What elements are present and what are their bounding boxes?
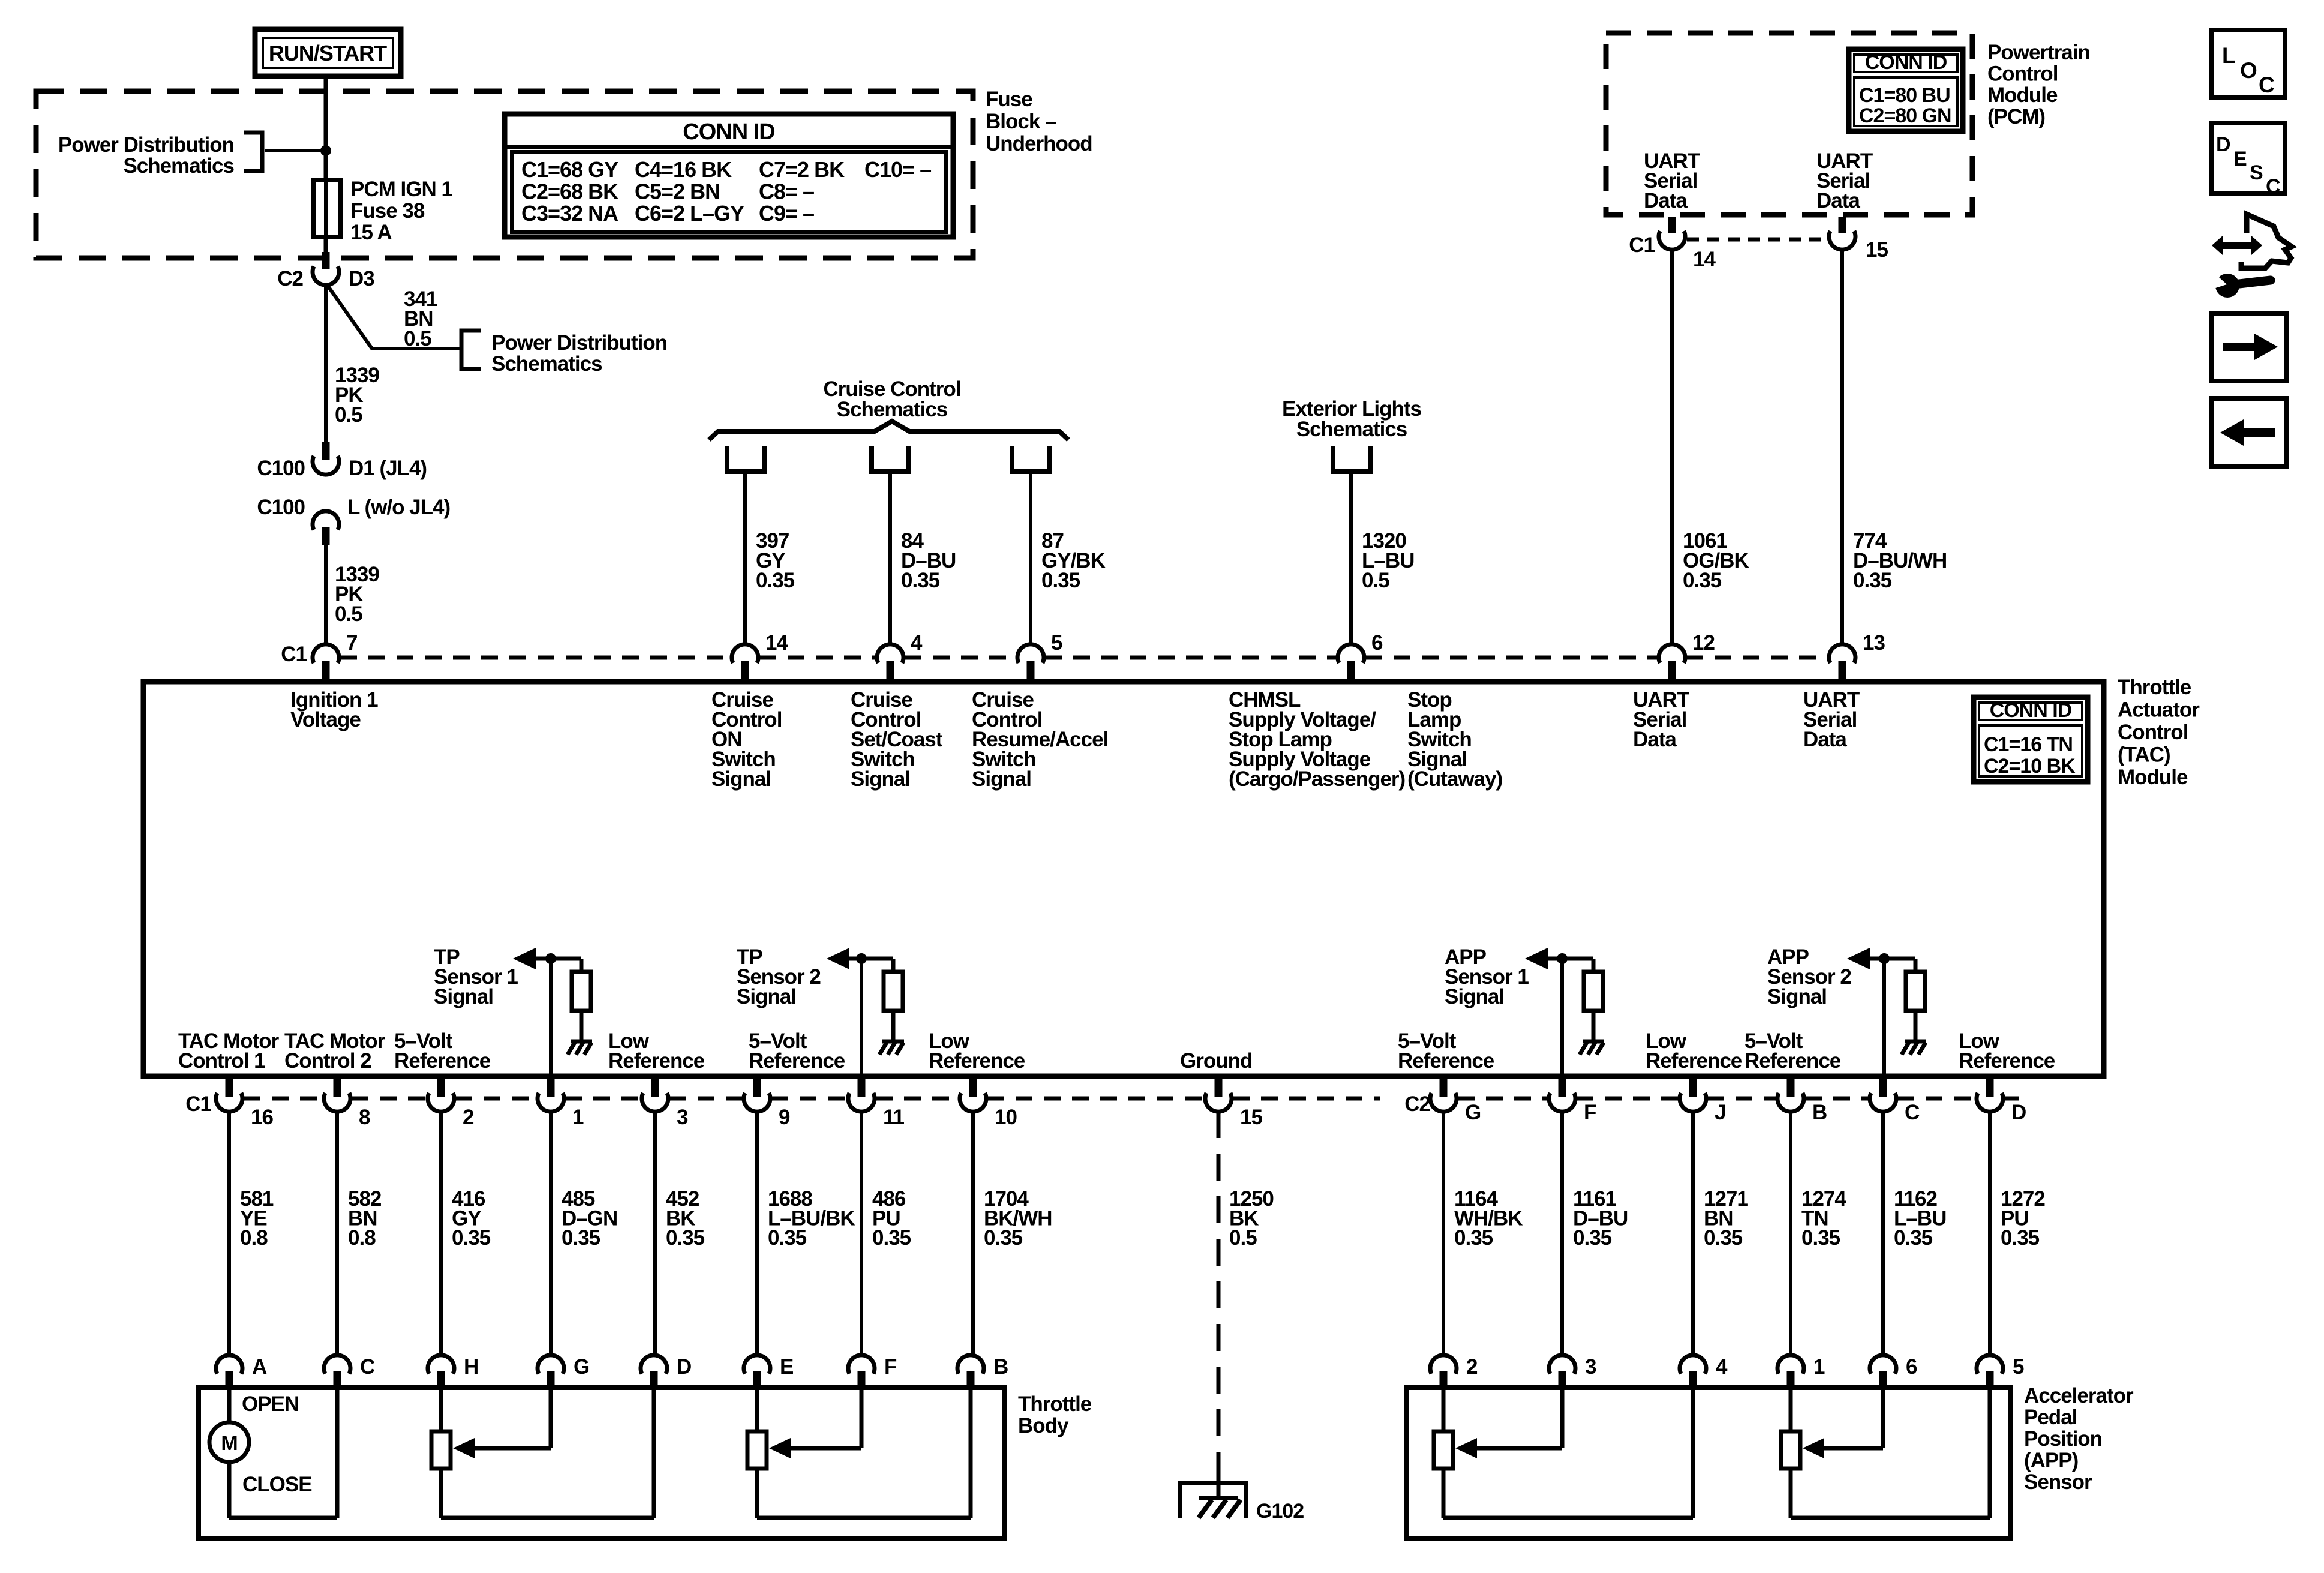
svg-text:(APP): (APP) <box>2024 1449 2078 1472</box>
label UART Serial Data (TAC right) <box>1803 688 1860 751</box>
arrow APP sensor 2 signal <box>1847 948 1870 969</box>
svg-text:Control: Control <box>1987 62 2058 86</box>
pin G (TAC C2 bottom) <box>1430 1079 1481 1124</box>
svg-text:0.35: 0.35 <box>2001 1226 2040 1250</box>
wire 1688 L–BU/BK <box>755 1111 759 1357</box>
label wire 1320 L-BU 0.5 <box>1362 529 1414 592</box>
connector C100 pin D1 (JL4) <box>257 442 427 480</box>
ground TP sensor 1 signal <box>568 1041 592 1055</box>
label Low Reference (pin 3) <box>608 1029 705 1073</box>
svg-text:CLOSE: CLOSE <box>242 1473 312 1496</box>
wire APP sensor 1 signal resistor to ground <box>1592 1011 1596 1040</box>
label Throttle Actuator Control (TAC) Module <box>2118 676 2200 789</box>
pin E (throttle body connector) <box>744 1355 793 1389</box>
wire APP sensor 2 signal arrow line <box>1869 959 1915 972</box>
svg-text:Pedal: Pedal <box>2024 1406 2077 1429</box>
svg-text:Accelerator: Accelerator <box>2024 1384 2134 1407</box>
svg-text:Data: Data <box>1633 728 1677 751</box>
label Low Reference (pin J) <box>1646 1029 1742 1073</box>
svg-text:0.35: 0.35 <box>1801 1226 1840 1250</box>
connector C100 pin L (w/o JL4) <box>257 496 450 545</box>
svg-text:Signal: Signal <box>1767 985 1827 1008</box>
svg-text:15: 15 <box>1866 238 1888 262</box>
svg-text:A: A <box>252 1355 267 1379</box>
off-page bracket exterior lights <box>1333 446 1370 472</box>
svg-text:F: F <box>884 1355 897 1379</box>
svg-text:Schematics: Schematics <box>1296 418 1407 441</box>
svg-text:Reference: Reference <box>749 1049 845 1073</box>
wire fuse to connector C2 <box>324 237 328 254</box>
wire cruise Set/Coast to pin 4 (84 D-BU) <box>888 472 892 646</box>
svg-text:Control 2: Control 2 <box>284 1049 371 1073</box>
label wire 1161 D–BU 0.35 <box>1573 1187 1628 1250</box>
svg-text:H: H <box>464 1355 478 1379</box>
node junction dot <box>320 145 331 156</box>
svg-text:Signal: Signal <box>737 985 796 1008</box>
svg-text:Schematics: Schematics <box>837 398 948 421</box>
label APP sensor 1 signal text <box>1445 945 1529 1008</box>
svg-text:Fuse 38: Fuse 38 <box>350 199 425 223</box>
wire 452 BK <box>653 1111 657 1357</box>
wiper arrow APP sensor 2 <box>1803 1387 1883 1458</box>
wire C2-D3 to C100 (1339 PK) <box>324 284 328 444</box>
wire 1272 PU <box>1988 1111 1992 1357</box>
svg-text:CONN ID: CONN ID <box>683 119 774 145</box>
svg-text:6: 6 <box>1371 631 1383 655</box>
pin D (throttle body connector) <box>641 1355 691 1389</box>
pin 6 (TAC C1 top) <box>1338 631 1383 681</box>
svg-text:Powertrain: Powertrain <box>1987 41 2090 64</box>
connector C2 pin D3 <box>277 252 374 290</box>
svg-text:C5=2 BN: C5=2 BN <box>635 179 720 204</box>
pin F (throttle body connector) <box>848 1355 897 1389</box>
svg-text:Body: Body <box>1018 1414 1069 1437</box>
label wire 452 BK 0.35 <box>666 1187 705 1250</box>
svg-text:Reference: Reference <box>608 1049 705 1073</box>
svg-text:6: 6 <box>1906 1355 1917 1379</box>
label wire 581 YE 0.8 <box>240 1187 274 1250</box>
wire PCM 14 to TAC 12 (1061 OG/BK) <box>1670 249 1674 646</box>
motor M throttle <box>209 1422 249 1462</box>
svg-text:C1: C1 <box>185 1092 211 1116</box>
fuse PCM IGN 1 Fuse 38 15A <box>313 180 341 237</box>
svg-text:Sensor: Sensor <box>2024 1470 2092 1494</box>
svg-text:0.35: 0.35 <box>1704 1226 1743 1250</box>
off-page bracket Power Distribution Schematics (341 BN) <box>461 331 667 376</box>
label wire 416 GY 0.35 <box>452 1187 491 1250</box>
svg-text:C1=68 GY: C1=68 GY <box>521 157 618 182</box>
wire TP sensor 1 signal junction down <box>549 959 553 1079</box>
svg-text:C100: C100 <box>257 457 305 480</box>
svg-text:0.35: 0.35 <box>452 1226 491 1250</box>
svg-text:C4=16 BK: C4=16 BK <box>635 157 732 182</box>
accelerator pedal position sensor box <box>1407 1388 2010 1539</box>
svg-text:Module: Module <box>2118 766 2188 789</box>
svg-text:D: D <box>677 1355 691 1379</box>
label wire 87 GY/BK 0.35 <box>1041 529 1106 592</box>
node TP sensor 1 signal junction <box>545 953 556 964</box>
off-page bracket Power Distribution Schematics (left) <box>58 133 262 178</box>
svg-text:B: B <box>993 1355 1008 1379</box>
wire TP sensor 2 signal arrow line <box>848 959 893 972</box>
label 5-Volt Reference (pin B) <box>1744 1029 1841 1073</box>
svg-text:11: 11 <box>883 1106 905 1129</box>
wire 1164 WH/BK <box>1442 1111 1445 1357</box>
svg-text:Reference: Reference <box>1744 1049 1841 1073</box>
svg-text:0.35: 0.35 <box>1894 1226 1933 1250</box>
svg-text:0.5: 0.5 <box>335 602 362 626</box>
resistor APP sensor 2 signal pull <box>1906 972 1925 1011</box>
svg-text:Module: Module <box>1987 83 2058 107</box>
label wire 1339 PK 0.5 (upper) <box>335 364 379 427</box>
wire RUN/START to fuse <box>324 76 328 180</box>
svg-text:Voltage: Voltage <box>290 708 361 731</box>
svg-text:0.35: 0.35 <box>901 569 940 592</box>
svg-text:15 A: 15 A <box>350 221 392 244</box>
resistor TP sensor 1 signal pull <box>572 972 591 1011</box>
icon double arrow with wrench <box>2210 214 2292 298</box>
label TP sensor 2 signal text <box>737 945 821 1008</box>
svg-text:1: 1 <box>572 1106 584 1129</box>
label TP sensor 1 signal text <box>434 945 518 1008</box>
svg-text:G: G <box>574 1355 589 1379</box>
label wire 774 D-BU/WH 0.35 <box>1853 529 1947 592</box>
icon box arrow right <box>2211 313 2287 381</box>
svg-text:L: L <box>2222 43 2235 68</box>
svg-text:OPEN: OPEN <box>242 1392 299 1416</box>
svg-text:4: 4 <box>911 631 923 655</box>
label Ignition 1 Voltage <box>290 688 378 731</box>
svg-text:C2=10 BK: C2=10 BK <box>1984 755 2076 778</box>
label CLOSE <box>242 1473 312 1496</box>
svg-text:D1 (JL4): D1 (JL4) <box>349 457 427 480</box>
svg-text:C1=16 TN: C1=16 TN <box>1984 733 2073 756</box>
svg-text:Schematics: Schematics <box>123 154 234 178</box>
svg-text:L (w/o JL4): L (w/o JL4) <box>347 496 450 519</box>
pin A (throttle body connector) <box>216 1355 267 1389</box>
wire APP sensor 2 signal resistor to ground <box>1914 1011 1918 1040</box>
potentiometer APP sensor 1 <box>1434 1387 1693 1518</box>
wire APP sensor 2 signal junction down <box>1882 959 1886 1079</box>
svg-text:C7=2 BK: C7=2 BK <box>759 157 845 182</box>
pin 1 (TAC C1 bottom) <box>538 1079 584 1129</box>
label APP sensor 2 signal text <box>1767 945 1851 1008</box>
label Fuse Block - Underhood <box>986 88 1092 155</box>
svg-text:C9= –: C9= – <box>759 201 814 226</box>
svg-text:C2: C2 <box>277 267 303 290</box>
svg-text:9: 9 <box>779 1106 790 1129</box>
wire 486 PU <box>860 1111 863 1357</box>
svg-text:(Cargo/Passenger): (Cargo/Passenger) <box>1229 767 1405 791</box>
label Low Reference (pin 10) <box>929 1029 1025 1073</box>
label wire 1164 WH/BK 0.35 <box>1454 1187 1523 1250</box>
pin 2 (TAC C1 bottom) <box>428 1079 474 1129</box>
svg-text:Actuator: Actuator <box>2118 698 2200 722</box>
pin 11 (TAC C1 bottom) <box>848 1079 905 1129</box>
connector PCM C1 pin 14 <box>1629 217 1716 271</box>
wire APP sensor 1 signal junction down <box>1560 959 1564 1079</box>
svg-text:CONN ID: CONN ID <box>1865 51 1947 74</box>
label wire 486 PU 0.35 <box>872 1187 911 1250</box>
svg-text:C3=32 NA: C3=32 NA <box>521 201 618 226</box>
wire exterior lights to pin 6 (1320 L-BU) <box>1349 472 1353 646</box>
svg-text:Ground: Ground <box>1180 1049 1252 1073</box>
pin D (TAC C2 bottom) <box>1977 1079 2026 1124</box>
pin C (throttle body connector) <box>324 1355 375 1389</box>
label Ground (pin 15) <box>1180 1049 1252 1073</box>
label wire 1162 L–BU 0.35 <box>1894 1187 1946 1250</box>
svg-text:Signal: Signal <box>434 985 493 1008</box>
svg-text:13: 13 <box>1863 631 1885 655</box>
svg-text:3: 3 <box>677 1106 688 1129</box>
pin 8 (TAC C1 bottom) <box>324 1079 370 1129</box>
svg-text:C: C <box>1905 1101 1920 1124</box>
svg-text:C: C <box>2266 175 2280 198</box>
off-page bracket cruise Resume/Accel <box>1012 446 1049 472</box>
svg-text:G102: G102 <box>1256 1500 1304 1523</box>
wire 485 D–GN <box>549 1111 553 1357</box>
pin 16 (TAC C1 bottom) <box>216 1079 273 1129</box>
svg-text:F: F <box>1584 1101 1596 1124</box>
svg-text:5: 5 <box>2013 1355 2024 1379</box>
svg-text:Signal: Signal <box>972 767 1031 791</box>
svg-text:Data: Data <box>1644 189 1688 212</box>
pin 7 (TAC C1 top) <box>313 631 357 681</box>
arrow TP sensor 1 signal <box>513 948 536 969</box>
wire branch diagonal 341 BN <box>328 286 461 349</box>
svg-text:Reference: Reference <box>1959 1049 2055 1073</box>
node APP sensor 2 signal junction <box>1879 953 1890 964</box>
label wire 1688 L–BU/BK 0.35 <box>768 1187 855 1250</box>
svg-text:10: 10 <box>995 1106 1017 1129</box>
pin 15 (TAC C1 bottom) <box>1205 1079 1262 1129</box>
wire TP sensor 1 signal arrow line <box>535 959 581 972</box>
brace over cruise control wires <box>709 421 1068 440</box>
pin 3 (APP sensor connector) <box>1549 1355 1596 1389</box>
svg-text:0.35: 0.35 <box>666 1226 705 1250</box>
svg-text:C1: C1 <box>281 643 307 666</box>
pin G (throttle body connector) <box>538 1355 589 1389</box>
pin 1 (APP sensor connector) <box>1777 1355 1825 1389</box>
wire motor loop <box>229 1387 337 1518</box>
label wire 397 GY 0.35 <box>756 529 795 592</box>
arrow APP sensor 1 signal <box>1525 948 1548 969</box>
label Cruise Control Set/Coast Switch Signal <box>851 688 943 791</box>
resistor TP sensor 2 signal pull <box>884 972 903 1011</box>
svg-text:C1: C1 <box>1629 233 1655 257</box>
svg-text:C10= –: C10= – <box>864 157 931 182</box>
wire junction to power distribution bracket <box>265 149 326 152</box>
svg-text:Block –: Block – <box>986 110 1056 133</box>
label TAC Motor Control 1 <box>178 1029 280 1073</box>
label 5-Volt Reference (pin G) <box>1398 1029 1494 1073</box>
label C1 (TAC top connector) <box>281 643 307 666</box>
label C2 (TAC bottom connector) <box>1404 1092 1430 1116</box>
wire 1161 D–BU <box>1560 1111 1564 1357</box>
label wire 1272 PU 0.35 <box>2001 1187 2045 1250</box>
label 5-Volt Reference (pin 2) <box>394 1029 491 1073</box>
svg-text:PCM IGN 1: PCM IGN 1 <box>350 178 452 201</box>
wire 1162 L–BU <box>1881 1111 1885 1357</box>
wiper arrow APP sensor 1 <box>1455 1387 1562 1458</box>
svg-text:0.35: 0.35 <box>1454 1226 1493 1250</box>
label wire 1274 TN 0.35 <box>1801 1187 1846 1250</box>
svg-text:Schematics: Schematics <box>491 352 602 376</box>
pin 3 (TAC C1 bottom) <box>642 1079 688 1129</box>
svg-text:J: J <box>1715 1101 1725 1124</box>
wiper arrow TP sensor 1 <box>453 1387 551 1458</box>
svg-text:3: 3 <box>1585 1355 1596 1379</box>
svg-text:0.8: 0.8 <box>240 1226 268 1250</box>
pin 12 (TAC C1 top) <box>1659 631 1715 681</box>
svg-text:0.5: 0.5 <box>404 327 431 350</box>
wire 1704 BK/WH <box>971 1111 975 1357</box>
pin J (TAC C2 bottom) <box>1680 1079 1725 1124</box>
svg-text:Throttle: Throttle <box>1018 1392 1092 1416</box>
svg-text:Reference: Reference <box>394 1049 491 1073</box>
icon box DESC <box>2211 123 2285 198</box>
svg-text:B: B <box>1812 1101 1827 1124</box>
PCM CONN ID table <box>1849 49 1963 131</box>
svg-text:D3: D3 <box>349 267 374 290</box>
svg-text:D: D <box>2011 1101 2026 1124</box>
fuse block - underhood dashed outline <box>36 91 973 258</box>
pin 6 (APP sensor connector) <box>1870 1355 1917 1389</box>
pin B (TAC C2 bottom) <box>1777 1079 1827 1124</box>
resistor APP sensor 1 signal pull <box>1584 972 1603 1011</box>
ground G102 <box>1180 1483 1304 1523</box>
label Stop Lamp Switch Signal (Cutaway) <box>1407 688 1502 791</box>
svg-text:D: D <box>2216 133 2230 156</box>
svg-text:2: 2 <box>1466 1355 1478 1379</box>
label Cruise Control Resume/Accel Switch Signal <box>972 688 1108 791</box>
svg-text:Data: Data <box>1803 728 1847 751</box>
label TAC Motor Control 2 <box>284 1029 386 1073</box>
wire TP sensor 1 signal resistor to ground <box>580 1011 584 1040</box>
svg-text:C1=80 BU: C1=80 BU <box>1859 84 1950 107</box>
svg-text:Data: Data <box>1816 189 1860 212</box>
node TP sensor 2 signal junction <box>856 953 867 964</box>
svg-text:8: 8 <box>359 1106 370 1129</box>
label OPEN <box>242 1392 299 1416</box>
label wire 1250 BK 0.5 <box>1229 1187 1274 1250</box>
svg-text:5: 5 <box>1051 631 1062 655</box>
pin C (TAC C2 bottom) <box>1870 1079 1920 1124</box>
throttle actuator control module box <box>143 682 2104 1076</box>
wire 1271 BN <box>1691 1111 1695 1357</box>
label wire 1271 BN 0.35 <box>1704 1187 1748 1250</box>
pin 4 (APP sensor connector) <box>1680 1355 1728 1389</box>
svg-text:S: S <box>2250 161 2263 184</box>
svg-text:C: C <box>360 1355 375 1379</box>
wire TP sensor 2 signal resistor to ground <box>891 1011 896 1040</box>
svg-text:G: G <box>1465 1101 1481 1124</box>
pin 2 (APP sensor connector) <box>1430 1355 1478 1389</box>
svg-text:Position: Position <box>2024 1427 2102 1451</box>
TAC CONN ID table <box>1974 697 2088 782</box>
svg-text:0.35: 0.35 <box>1853 569 1892 592</box>
pin 9 (TAC C1 bottom) <box>744 1079 790 1129</box>
pin 5 (APP sensor connector) <box>1977 1355 2024 1389</box>
TAC bottom connector C2 dashed line <box>1458 1097 2019 1101</box>
powertrain control module dashed outline <box>1606 33 1972 215</box>
label wire 1339 PK 0.5 (lower) <box>335 563 379 626</box>
svg-text:Reference: Reference <box>1646 1049 1742 1073</box>
PCM connector dashed line <box>1687 238 1827 242</box>
svg-text:Control 1: Control 1 <box>178 1049 265 1073</box>
pin H (throttle body connector) <box>428 1355 478 1389</box>
svg-text:Underhood: Underhood <box>986 132 1092 155</box>
wire PCM 15 to TAC 13 (774 D-BU/WH) <box>1840 249 1844 646</box>
pin 13 (TAC C1 top) <box>1829 631 1885 681</box>
wire 1274 TN <box>1789 1111 1792 1357</box>
svg-text:C6=2 L–GY: C6=2 L–GY <box>635 201 744 226</box>
svg-text:0.5: 0.5 <box>1362 569 1389 592</box>
svg-text:C8= –: C8= – <box>759 179 814 204</box>
svg-text:M: M <box>221 1432 237 1455</box>
svg-text:4: 4 <box>1716 1355 1728 1379</box>
TAC bottom connector C1 dashed line <box>244 1097 1380 1101</box>
svg-text:CONN ID: CONN ID <box>1990 699 2072 722</box>
off-page bracket cruise ON <box>727 446 764 472</box>
svg-text:Control: Control <box>2118 721 2188 744</box>
label C1 (TAC bottom connector) <box>185 1092 211 1116</box>
pin B (throttle body connector) <box>957 1355 1008 1389</box>
svg-text:16: 16 <box>251 1106 273 1129</box>
label wire 1061 OG/BK 0.35 <box>1683 529 1749 592</box>
svg-text:C2=68 BK: C2=68 BK <box>521 179 618 204</box>
label wire 582 BN 0.8 <box>348 1187 382 1250</box>
potentiometer APP sensor 2 <box>1781 1387 1990 1518</box>
ground APP sensor 1 signal <box>1580 1041 1604 1055</box>
svg-text:0.35: 0.35 <box>1573 1226 1612 1250</box>
icon box arrow left <box>2211 398 2287 467</box>
label Exterior Lights Schematics <box>1282 397 1422 441</box>
label UART Serial Data (PCM right) <box>1816 149 1873 212</box>
label UART Serial Data (TAC left) <box>1633 688 1689 751</box>
wire cruise Resume/Accel to pin 5 (87 GY/BK) <box>1029 472 1032 646</box>
wire C100 to TAC pin 7 (1339 PK) <box>324 545 328 646</box>
label UART Serial Data (PCM left) <box>1644 149 1700 212</box>
pin 4 (TAC C1 top) <box>877 631 923 681</box>
ground APP sensor 2 signal <box>1902 1041 1926 1055</box>
svg-text:(PCM): (PCM) <box>1987 105 2045 128</box>
pin 14 (TAC C1 top) <box>732 631 788 681</box>
svg-text:C2: C2 <box>1404 1092 1430 1116</box>
label 5-Volt Reference (pin 9) <box>749 1029 845 1073</box>
label Throttle Body <box>1018 1392 1092 1437</box>
svg-text:Fuse: Fuse <box>986 88 1032 111</box>
svg-text:C: C <box>2259 73 2274 97</box>
ground TP sensor 2 signal <box>879 1041 904 1055</box>
label PCM IGN 1 Fuse 38 15 A <box>350 178 452 244</box>
potentiometer TP sensor 1 <box>431 1387 654 1518</box>
svg-text:E: E <box>2233 148 2247 170</box>
svg-text:0.35: 0.35 <box>1041 569 1080 592</box>
label Low Reference (pin D) <box>1959 1029 2055 1073</box>
svg-text:Power Distribution: Power Distribution <box>58 133 234 157</box>
wire 416 GY <box>439 1111 443 1357</box>
wiper arrow TP sensor 2 <box>769 1387 861 1458</box>
label Cruise Control Schematics <box>823 377 960 421</box>
wire TP sensor 2 signal junction down <box>860 959 863 1079</box>
svg-text:E: E <box>780 1355 793 1379</box>
svg-text:14: 14 <box>1693 248 1716 271</box>
arrow TP sensor 2 signal <box>827 948 849 969</box>
label wire 341 BN 0.5 <box>404 287 437 350</box>
svg-text:Reference: Reference <box>1398 1049 1494 1073</box>
svg-text:14: 14 <box>765 631 788 655</box>
